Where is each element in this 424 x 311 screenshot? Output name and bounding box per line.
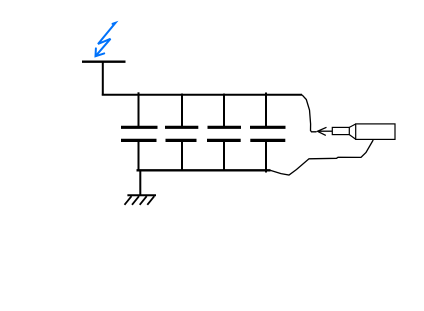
wire: top bus down to probe arrow <box>302 95 317 132</box>
wire: bottom bus to ground <box>139 170 141 195</box>
wire: capacitor C1 bottom lead <box>138 142 140 172</box>
probe taper bottom <box>349 135 356 140</box>
wire: capacitor C2 top lead <box>181 94 183 128</box>
capacitor C2 <box>165 127 198 140</box>
wire: bottom bus <box>137 169 271 171</box>
capacitor C3 <box>207 127 241 140</box>
wire: top bus <box>102 94 302 96</box>
capacitor C1 <box>121 127 158 140</box>
capacitor C4 <box>250 127 286 140</box>
antenna top plate <box>82 61 126 63</box>
wire: capacitor C3 top lead <box>223 94 225 128</box>
lightning arrow (blue spark into antenna plate) <box>96 23 116 56</box>
wire: arrow shaft to probe nozzle <box>319 130 333 132</box>
probe taper top <box>349 124 356 128</box>
ground <box>125 195 157 205</box>
wire: capacitor C4 top lead <box>265 93 267 128</box>
wire: capacitor C2 bottom lead <box>181 142 183 172</box>
wire: capacitor C3 bottom lead <box>223 142 225 172</box>
wire: capacitor C4 bottom lead <box>265 142 267 173</box>
probe nozzle (connector tip) <box>332 127 349 134</box>
arrowhead pointing left at probe tip <box>318 127 327 135</box>
probe body <box>356 124 395 139</box>
wire: probe body to bottom bus <box>271 140 374 175</box>
wire: plate to top bus <box>102 62 104 96</box>
wire: capacitor C1 top lead <box>138 92 140 127</box>
